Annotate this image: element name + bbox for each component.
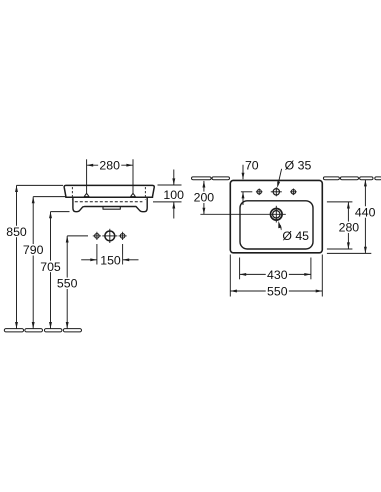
svg-text:550: 550 xyxy=(267,285,288,299)
svg-text:550: 550 xyxy=(57,277,78,291)
svg-text:850: 850 xyxy=(6,225,27,239)
svg-text:70: 70 xyxy=(245,158,259,172)
svg-text:440: 440 xyxy=(355,205,376,219)
svg-text:280: 280 xyxy=(99,159,120,173)
svg-text:705: 705 xyxy=(40,260,61,274)
svg-text:Ø 35: Ø 35 xyxy=(285,158,312,172)
svg-text:280: 280 xyxy=(339,221,360,235)
svg-text:100: 100 xyxy=(163,188,184,202)
svg-text:200: 200 xyxy=(194,191,215,205)
svg-text:150: 150 xyxy=(100,253,121,267)
svg-text:Ø 45: Ø 45 xyxy=(282,229,309,243)
svg-text:790: 790 xyxy=(23,243,44,257)
svg-text:430: 430 xyxy=(267,268,288,282)
